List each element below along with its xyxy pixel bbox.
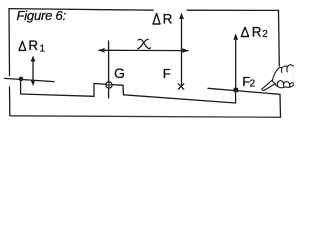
wire plateau line — [94, 84, 123, 86]
frame top border right segment — [187, 9, 279, 11]
svg-text:R: R — [252, 24, 262, 39]
svg-text:Figure 6:: Figure 6: — [17, 8, 67, 23]
dimension line x horizontal — [98, 48, 189, 53]
label F — [163, 66, 171, 81]
wire upper-left rail line — [5, 78, 55, 81]
node F2 square junction dot — [234, 88, 239, 92]
label delta-R — [153, 12, 173, 27]
svg-text:R: R — [28, 38, 38, 53]
svg-text:F: F — [163, 66, 171, 81]
label delta-R2 — [241, 24, 268, 40]
frame left border upper segment — [8, 9, 11, 76]
frame bottom border — [10, 116, 281, 118]
frame top border left segment — [9, 9, 153, 11]
svg-text:G: G — [114, 65, 125, 81]
label F2 — [242, 74, 255, 89]
wire left step down — [20, 79, 22, 94]
wire lower-left rail line — [21, 94, 94, 96]
manicule pointing hand icon — [262, 65, 295, 91]
wire right step up — [235, 90, 237, 103]
node G circle-cross benchmark symbol — [106, 82, 112, 88]
arrow delta-R vertical measure line — [179, 13, 184, 86]
wire upper-right rail line — [208, 88, 280, 94]
frame left border lower segment — [9, 87, 11, 116]
wire G vertical line — [108, 41, 110, 98]
wire plateau step down — [122, 85, 125, 95]
svg-text:1: 1 — [40, 43, 46, 54]
label Figure 6: — [17, 8, 67, 23]
svg-text:R: R — [163, 12, 173, 27]
node F x-mark — [178, 84, 184, 90]
svg-text:2: 2 — [262, 29, 268, 40]
frame right border upper segment — [278, 10, 281, 66]
node junction dot on upper-left rail — [19, 77, 24, 82]
svg-text:2: 2 — [250, 79, 256, 90]
label x dimension — [138, 39, 151, 49]
arrow delta-R1 double-headed vertical — [31, 56, 36, 87]
frame right border lower segment — [279, 94, 282, 117]
wire long lower rail line — [124, 95, 236, 103]
label delta-R1 — [19, 38, 46, 54]
wire left step up to plateau — [93, 84, 95, 97]
label G — [114, 65, 125, 81]
arrow delta-R2 vertical measure line — [233, 33, 238, 90]
